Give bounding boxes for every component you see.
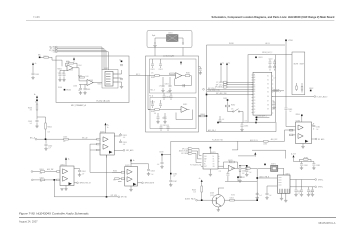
svg-text:R0324: R0324 — [231, 168, 235, 170]
svg-text:.1uF: .1uF — [151, 174, 154, 176]
svg-text:AU_B: AU_B — [266, 42, 270, 45]
svg-text:C04: C04 — [62, 73, 65, 75]
svg-text:C0313: C0313 — [151, 102, 155, 104]
svg-text:O2: O2 — [213, 161, 215, 163]
svg-text:.1uF: .1uF — [273, 78, 276, 80]
svg-text:MIC_AUD: MIC_AUD — [126, 149, 134, 152]
svg-text:U0303: U0303 — [89, 80, 93, 82]
svg-text:O9: O9 — [267, 109, 269, 111]
svg-text:100K: 100K — [86, 76, 89, 78]
svg-text:7-136: 7-136 — [33, 15, 40, 19]
svg-text:C0342: C0342 — [48, 146, 52, 148]
svg-text:C4: C4 — [254, 103, 256, 105]
svg-text:C74: C74 — [310, 193, 313, 195]
svg-text:10K: 10K — [63, 141, 65, 143]
svg-text:A+: A+ — [229, 62, 231, 65]
svg-text:R0311: R0311 — [151, 77, 155, 79]
svg-text:VR501: VR501 — [288, 40, 293, 42]
svg-text:R0317: R0317 — [186, 73, 190, 75]
svg-text:C5: C5 — [254, 106, 256, 108]
svg-text:MIC_3: MIC_3 — [151, 90, 155, 92]
svg-text:.1uF: .1uF — [249, 172, 252, 174]
svg-text:SPKR_RTN_TX: SPKR_RTN_TX — [80, 183, 91, 185]
svg-text:B3: B3 — [254, 87, 256, 89]
svg-text:OUT: OUT — [204, 166, 207, 168]
svg-text:10K: 10K — [154, 113, 156, 115]
svg-text:O3: O3 — [213, 164, 215, 166]
svg-text:U0302: U0302 — [69, 69, 73, 71]
svg-text:R0331: R0331 — [231, 195, 235, 197]
svg-text:R0366: R0366 — [229, 43, 234, 45]
svg-text:R0323: R0323 — [228, 160, 232, 162]
svg-text:A+: A+ — [35, 62, 37, 65]
svg-text:MIC_2: MIC_2 — [136, 74, 140, 76]
svg-text:ext dummy fltr: ext dummy fltr — [163, 55, 175, 58]
svg-text:C0343: C0343 — [151, 171, 155, 173]
svg-text:SPI_CLK: SPI_CLK — [182, 148, 188, 150]
svg-text:B4: B4 — [254, 89, 256, 91]
svg-text:CS: CS — [204, 161, 206, 163]
svg-text:C0301: C0301 — [35, 74, 39, 76]
svg-text:R41: R41 — [113, 180, 116, 182]
svg-text:A+: A+ — [34, 93, 36, 96]
svg-text:.1uF: .1uF — [123, 144, 126, 146]
svg-text:R0322: R0322 — [192, 190, 196, 192]
svg-text:A+: A+ — [199, 177, 201, 180]
svg-text:Spkr: Spkr — [152, 35, 156, 37]
svg-text:C0354: C0354 — [269, 58, 273, 60]
svg-text:Q0321: Q0321 — [210, 193, 214, 195]
svg-text:U0341: U0341 — [125, 165, 130, 167]
svg-text:C0319: C0319 — [163, 125, 167, 127]
svg-text:DAT: DAT — [204, 157, 207, 160]
svg-text:C6: C6 — [254, 109, 256, 111]
svg-text:JU0371: JU0371 — [271, 164, 276, 166]
svg-text:C0341: C0341 — [28, 121, 32, 123]
svg-text:O7: O7 — [267, 101, 269, 103]
svg-text:6816529H01-A: 6816529H01-A — [318, 221, 335, 225]
svg-text:O8: O8 — [267, 105, 269, 107]
svg-text:.1uF: .1uF — [259, 195, 262, 197]
svg-text:C0302: C0302 — [82, 171, 86, 173]
svg-text:VR504: VR504 — [296, 114, 300, 116]
svg-text:R0341: R0341 — [113, 170, 117, 172]
svg-text:B1: B1 — [254, 82, 256, 84]
svg-text:R0343: R0343 — [28, 108, 32, 110]
svg-text:C0326: C0326 — [159, 152, 163, 154]
svg-text:CLK: CLK — [204, 156, 207, 158]
svg-text:.1uF: .1uF — [222, 119, 225, 121]
svg-text:B2: B2 — [254, 84, 256, 86]
svg-text:.1uF: .1uF — [123, 137, 126, 139]
svg-text:10K: 10K — [230, 162, 232, 164]
svg-text:U0312: U0312 — [183, 104, 187, 106]
svg-text:C53: C53 — [245, 120, 248, 122]
svg-text:MUTE: MUTE — [294, 64, 298, 66]
svg-text:C72: C72 — [298, 193, 301, 195]
svg-text:U0371: U0371 — [286, 174, 290, 176]
svg-text:O1: O1 — [267, 76, 269, 78]
svg-text:C0362: C0362 — [316, 127, 320, 129]
svg-text:V+: V+ — [213, 156, 215, 158]
svg-text:.1uF: .1uF — [173, 176, 176, 178]
svg-text:SPKR_MUTE: SPKR_MUTE — [145, 183, 154, 185]
svg-text:O1: O1 — [213, 158, 215, 160]
svg-text:AUDIO_PA_B: AUDIO_PA_B — [260, 175, 270, 178]
svg-text:AUD_RA_2: AUD_RA_2 — [208, 129, 216, 132]
svg-text:R0304: R0304 — [58, 87, 62, 89]
svg-text:R0307: R0307 — [98, 83, 102, 85]
svg-text:O6: O6 — [267, 96, 269, 98]
svg-text:AUDIO_PA_IN: AUDIO_PA_IN — [185, 197, 195, 200]
svg-text:C0334: C0334 — [123, 142, 127, 144]
svg-text:220K: 220K — [66, 61, 69, 63]
svg-text:MIC_AUD_SND: MIC_AUD_SND — [216, 92, 228, 95]
svg-text:BUSY: BUSY — [300, 64, 304, 66]
svg-text:B5: B5 — [254, 91, 256, 93]
svg-text:C3: C3 — [254, 100, 256, 102]
svg-text:VR0301: VR0301 — [66, 90, 71, 92]
svg-text:10K: 10K — [242, 173, 244, 175]
svg-text:C0312: C0312 — [159, 69, 163, 71]
svg-text:.1uF: .1uF — [269, 195, 272, 197]
svg-text:C0304: C0304 — [78, 65, 82, 67]
svg-text:FLT_A: FLT_A — [149, 95, 153, 98]
svg-text:CSX: CSX — [53, 51, 56, 53]
svg-text:R0313: R0313 — [151, 111, 155, 113]
svg-text:1uF: 1uF — [289, 111, 291, 113]
svg-text:MIC: MIC — [38, 55, 42, 57]
svg-text:TX_EXT_AUDIO: TX_EXT_AUDIO — [317, 95, 329, 98]
svg-text:C0321: C0321 — [242, 171, 246, 173]
svg-text:C0352: C0352 — [223, 98, 227, 100]
svg-text:10K: 10K — [40, 173, 42, 175]
svg-text:SPKR-: SPKR- — [318, 187, 323, 189]
svg-text:C0315: C0315 — [165, 83, 169, 85]
svg-text:C0305: C0305 — [86, 89, 90, 91]
svg-text:Figure 7-90. HLE4304X Control: Figure 7-90. HLE4304X Controller Audio S… — [19, 211, 89, 215]
svg-text:1uF: 1uF — [78, 90, 80, 92]
svg-text:A1: A1 — [254, 74, 256, 77]
svg-text:U0361: U0361 — [296, 120, 301, 122]
svg-text:C0374: C0374 — [310, 191, 314, 193]
svg-text:MIC_PREAMP_A: MIC_PREAMP_A — [71, 104, 87, 107]
svg-text:.1uF: .1uF — [82, 174, 85, 176]
svg-text:A+: A+ — [68, 158, 70, 161]
svg-text:VR502: VR502 — [309, 88, 313, 90]
svg-text:C2: C2 — [254, 97, 256, 99]
svg-text:C0324: C0324 — [230, 198, 234, 200]
svg-text:R0308: R0308 — [201, 114, 205, 116]
svg-text:C0347: C0347 — [173, 181, 177, 183]
svg-text:C03: C03 — [58, 73, 61, 75]
svg-text:AUD_RX2: AUD_RX2 — [271, 138, 278, 141]
svg-text:R0306: R0306 — [40, 169, 44, 171]
svg-text:1uF: 1uF — [159, 86, 161, 88]
svg-text:C0363: C0363 — [263, 143, 267, 145]
svg-text:C1: C1 — [254, 94, 256, 96]
svg-text:AUD_TAP: AUD_TAP — [47, 168, 53, 171]
svg-text:C0372: C0372 — [297, 191, 301, 193]
svg-text:C0333: C0333 — [123, 135, 127, 137]
svg-text:PC_MUTE: PC_MUTE — [216, 82, 223, 84]
svg-text:C0345: C0345 — [63, 137, 67, 139]
svg-text:FL_AUDIO_RA: FL_AUDIO_RA — [212, 139, 224, 142]
svg-text:U0321: U0321 — [211, 152, 216, 154]
svg-text:.1uF: .1uF — [48, 148, 51, 150]
svg-text:SPKR+: SPKR+ — [318, 179, 323, 181]
svg-text:IN: IN — [204, 164, 205, 166]
svg-text:C0346: C0346 — [173, 173, 177, 175]
svg-text:COM_PWR_CON: COM_PWR_CON — [208, 90, 220, 92]
svg-text:LS0301: LS0301 — [168, 32, 173, 34]
svg-text:R0302: R0302 — [58, 69, 62, 71]
svg-text:.1uF: .1uF — [157, 164, 160, 166]
svg-text:Q0331: Q0331 — [210, 195, 214, 197]
svg-text:GN: GN — [213, 166, 215, 168]
svg-text:.1uF: .1uF — [316, 129, 319, 131]
svg-text:C0383: C0383 — [316, 165, 320, 167]
svg-text:U0307: U0307 — [104, 68, 108, 70]
svg-text:C22: C22 — [219, 171, 222, 173]
svg-text:C0384: C0384 — [304, 165, 308, 167]
svg-text:R0305: R0305 — [78, 76, 82, 78]
svg-text:10K: 10K — [231, 109, 233, 111]
svg-text:A+: A+ — [133, 159, 135, 162]
svg-text:O4: O4 — [267, 88, 269, 90]
svg-text:U0301: U0301 — [60, 164, 65, 166]
svg-text:R0383: R0383 — [304, 157, 308, 159]
svg-text:47K: 47K — [30, 110, 32, 112]
svg-text:FROM_SHT_2: FROM_SHT_2 — [262, 52, 272, 54]
svg-text:SPI_CLK_2: SPI_CLK_2 — [216, 84, 224, 86]
svg-text:2.2K: 2.2K — [193, 191, 196, 193]
svg-text:U0351: U0351 — [258, 57, 262, 59]
svg-text:C0311: C0311 — [151, 69, 155, 71]
svg-text:FLT_AUDIO_RA: FLT_AUDIO_RA — [190, 163, 201, 166]
svg-text:A+ 9.3V: A+ 9.3V — [291, 153, 296, 156]
svg-text:10K: 10K — [151, 73, 153, 75]
svg-text:C0316: C0316 — [162, 118, 166, 120]
svg-text:A+: A+ — [107, 124, 109, 127]
svg-text:O3: O3 — [267, 84, 269, 86]
svg-text:U0331: U0331 — [100, 131, 105, 133]
svg-text:O2: O2 — [267, 80, 269, 82]
svg-text:August 24, 2007: August 24, 2007 — [19, 219, 38, 223]
svg-text:R0344: R0344 — [48, 127, 52, 129]
svg-text:A+: A+ — [223, 62, 225, 65]
svg-text:A+: A+ — [120, 59, 122, 62]
svg-text:C7: C7 — [254, 112, 256, 114]
svg-text:GND: GND — [167, 92, 170, 94]
svg-text:C0307: C0307 — [40, 177, 44, 179]
svg-text:O5: O5 — [267, 92, 269, 94]
svg-text:On-Chip uA audio: On-Chip uA audio — [96, 99, 110, 102]
svg-text:10K: 10K — [48, 131, 50, 133]
svg-text:MIC_A: MIC_A — [30, 136, 36, 139]
svg-text:MIC_A2: MIC_A2 — [82, 136, 88, 139]
svg-text:INT_SPK: INT_SPK — [111, 195, 117, 197]
svg-text:R0352: R0352 — [231, 105, 235, 107]
svg-text:Schematics, Component Location: Schematics, Component Location Diagrams,… — [211, 15, 334, 19]
svg-text:.1uF: .1uF — [29, 123, 32, 125]
svg-text:C0306: C0306 — [73, 86, 77, 88]
svg-text:AUD_RX_FL: AUD_RX_FL — [250, 139, 258, 142]
svg-text:RX_AUD: RX_AUD — [318, 138, 325, 141]
svg-text:SPK_RA: SPK_RA — [121, 196, 127, 199]
svg-text:C0353: C0353 — [244, 126, 248, 128]
svg-text:.1uF: .1uF — [40, 181, 43, 183]
svg-text:C0365: C0365 — [288, 109, 292, 111]
